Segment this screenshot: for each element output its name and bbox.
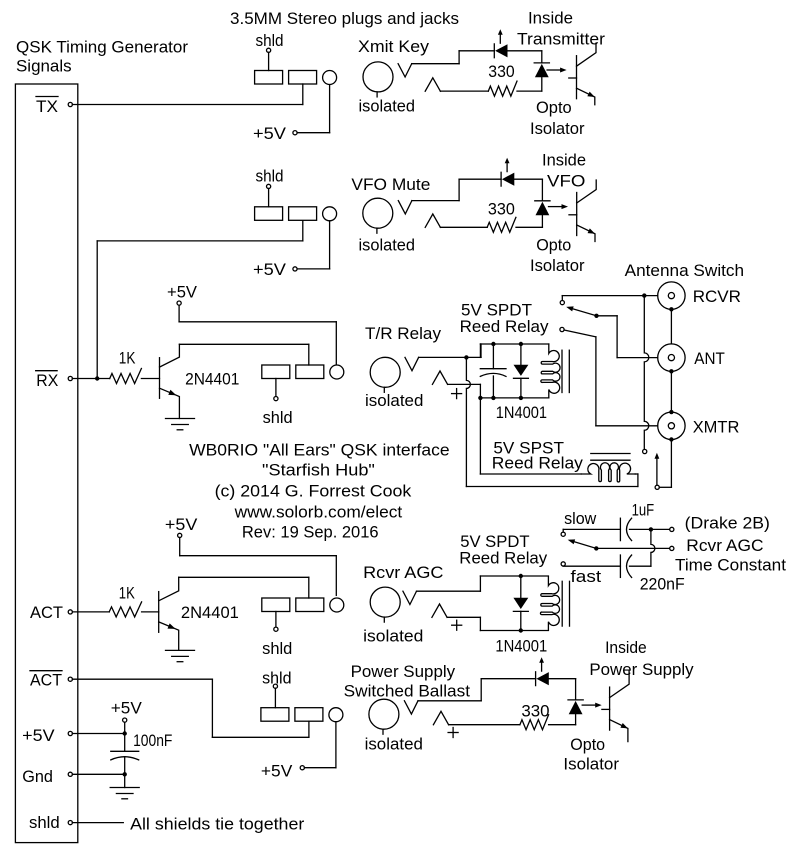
svg-text:XMTR: XMTR <box>693 417 740 436</box>
svg-text:All shields tie together: All shields tie together <box>130 815 305 834</box>
svg-text:Isolator: Isolator <box>530 119 585 138</box>
svg-text:220nF: 220nF <box>640 575 685 594</box>
svg-text:ACT: ACT <box>30 603 63 622</box>
svg-text:2N4401: 2N4401 <box>181 603 239 622</box>
svg-text:VFO Mute: VFO Mute <box>351 175 430 194</box>
svg-text:Reed Relay: Reed Relay <box>492 453 584 472</box>
svg-text:+5V: +5V <box>165 515 198 534</box>
svg-text:Rcvr AGC: Rcvr AGC <box>686 536 763 555</box>
svg-text:330: 330 <box>488 62 514 81</box>
svg-text:Opto: Opto <box>536 98 572 117</box>
svg-text:isolated: isolated <box>365 734 423 753</box>
svg-text:shld: shld <box>256 167 284 186</box>
svg-text:Antenna Switch: Antenna Switch <box>625 261 745 280</box>
svg-text:isolated: isolated <box>359 235 416 254</box>
svg-text:1N4001: 1N4001 <box>496 403 547 422</box>
svg-text:www.solorb.com/elect: www.solorb.com/elect <box>234 502 403 521</box>
svg-text:ANT: ANT <box>694 349 725 368</box>
svg-text:WB0RIO "All Ears" QSK interfac: WB0RIO "All Ears" QSK interface <box>189 441 450 460</box>
svg-text:Power Supply: Power Supply <box>589 660 694 679</box>
svg-text:RX: RX <box>36 371 58 390</box>
svg-text:isolated: isolated <box>363 627 423 646</box>
svg-text:shld: shld <box>29 813 60 832</box>
svg-text:+5V: +5V <box>261 762 293 781</box>
svg-text:100nF: 100nF <box>133 731 172 750</box>
svg-text:Rev: 19 Sep. 2016: Rev: 19 Sep. 2016 <box>242 523 379 542</box>
svg-text:Isolator: Isolator <box>530 256 585 275</box>
svg-text:Time Constant: Time Constant <box>675 555 786 574</box>
svg-text:Power Supply: Power Supply <box>351 662 456 681</box>
svg-text:Inside: Inside <box>542 151 586 170</box>
svg-text:shld: shld <box>263 408 293 427</box>
svg-text:Reed Relay: Reed Relay <box>460 317 549 336</box>
svg-text:shld: shld <box>256 31 284 50</box>
svg-text:Transmitter: Transmitter <box>517 30 605 49</box>
svg-text:TX: TX <box>36 97 58 116</box>
svg-text:+5V: +5V <box>167 282 198 301</box>
svg-text:(c) 2014 G. Forrest Cook: (c) 2014 G. Forrest Cook <box>215 481 412 500</box>
svg-text:+5V: +5V <box>111 699 143 718</box>
svg-text:Isolator: Isolator <box>563 754 619 773</box>
svg-text:VFO: VFO <box>547 172 585 191</box>
svg-text:ACT: ACT <box>30 671 62 690</box>
svg-text:isolated: isolated <box>365 391 423 410</box>
svg-text:Rcvr AGC: Rcvr AGC <box>363 563 443 582</box>
svg-text:(Drake 2B): (Drake 2B) <box>685 514 770 533</box>
svg-text:shld: shld <box>262 668 291 687</box>
svg-text:Reed Relay: Reed Relay <box>459 549 547 568</box>
svg-text:+5V: +5V <box>22 726 55 745</box>
svg-text:QSK Timing Generator: QSK Timing Generator <box>16 38 188 57</box>
svg-text:Switched Ballast: Switched Ballast <box>344 681 471 700</box>
svg-text:slow: slow <box>564 509 597 528</box>
svg-text:1uF: 1uF <box>632 501 655 520</box>
svg-text:Gnd: Gnd <box>22 767 53 786</box>
svg-text:"Starfish Hub": "Starfish Hub" <box>262 461 375 480</box>
svg-text:Opto: Opto <box>570 735 605 754</box>
svg-text:fast: fast <box>571 567 602 586</box>
svg-text:RCVR: RCVR <box>693 287 741 306</box>
svg-text:+5V: +5V <box>253 124 287 143</box>
svg-text:Xmit Key: Xmit Key <box>358 37 430 56</box>
svg-text:Inside: Inside <box>605 638 647 657</box>
svg-text:3.5MM Stereo plugs and jacks: 3.5MM Stereo plugs and jacks <box>230 9 459 28</box>
svg-text:T/R Relay: T/R Relay <box>365 324 441 343</box>
svg-text:Opto: Opto <box>536 236 571 255</box>
svg-text:shld: shld <box>262 639 292 658</box>
svg-text:330: 330 <box>488 200 515 219</box>
svg-text:Inside: Inside <box>528 8 573 27</box>
svg-text:330: 330 <box>521 701 549 720</box>
svg-text:1K: 1K <box>119 584 136 603</box>
svg-text:Signals: Signals <box>16 57 72 76</box>
svg-text:1N4001: 1N4001 <box>495 637 547 656</box>
svg-text:isolated: isolated <box>359 97 416 116</box>
svg-text:2N4401: 2N4401 <box>185 370 239 389</box>
svg-text:+5V: +5V <box>253 260 287 279</box>
svg-text:1K: 1K <box>119 349 136 368</box>
